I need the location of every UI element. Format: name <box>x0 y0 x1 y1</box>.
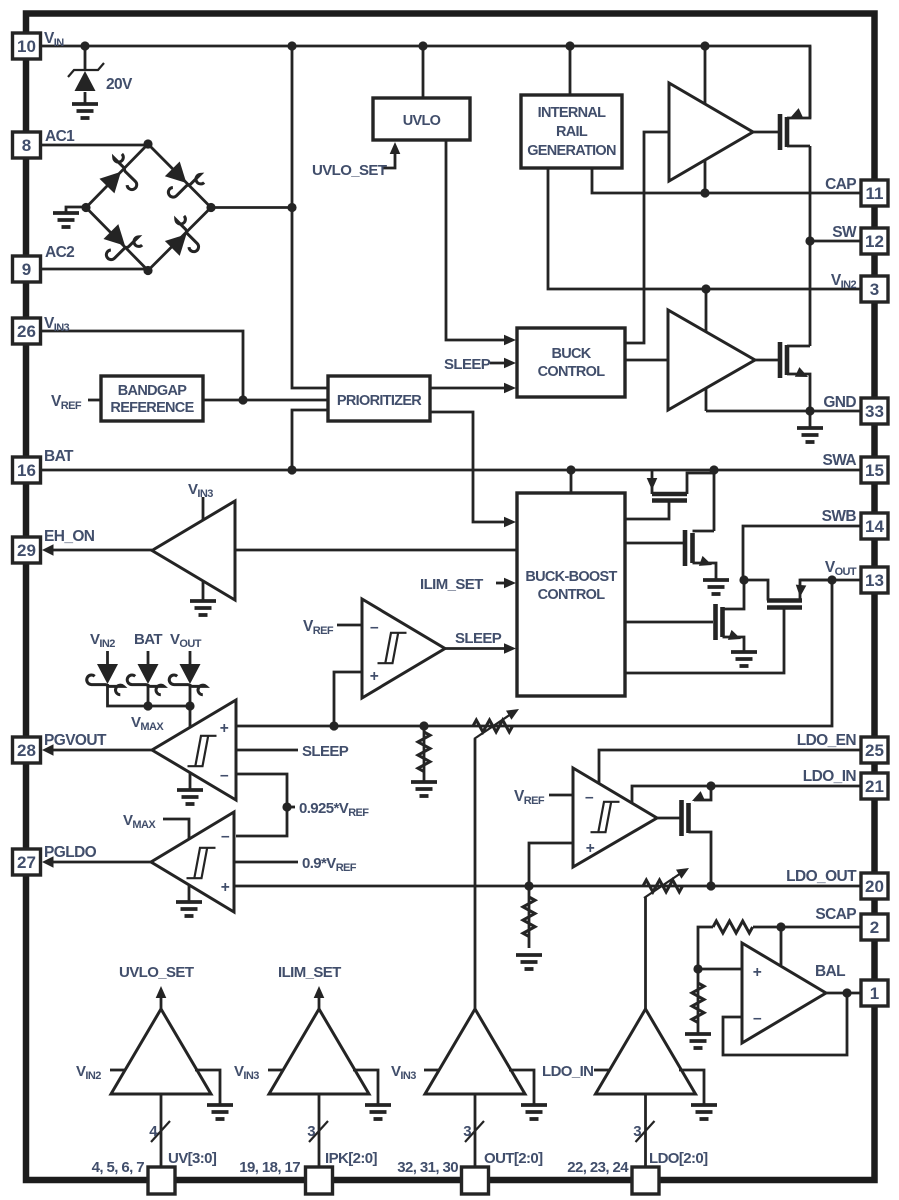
pin 8 AC1 <box>13 132 41 158</box>
wire 0.925*VREF vertical <box>236 774 287 836</box>
svg-text:EH_ON: EH_ON <box>44 528 95 545</box>
wire 0.925*VREF label stub <box>287 806 295 809</box>
wire UVLO top stub <box>422 46 425 98</box>
wire prioritizer to buck control <box>430 387 510 390</box>
resistor SCAP feedback <box>713 921 753 933</box>
wire EH_ON amp ground stub <box>202 578 205 601</box>
wire SCAP feedback left segment <box>698 927 713 969</box>
svg-text:PGLDO: PGLDO <box>44 844 97 861</box>
wire LDO comparator output <box>657 817 680 820</box>
pin 15 SWA <box>861 457 888 483</box>
arrow into pin 27 <box>42 856 54 868</box>
wire SW node vertical <box>809 146 812 346</box>
svg-text:ILIM_SET: ILIM_SET <box>420 576 483 593</box>
svg-text:+: + <box>221 879 230 896</box>
wire EH_ON amp output to pin 29 <box>46 549 152 552</box>
wire fet A left arm to SWA <box>651 470 654 494</box>
svg-text:BUCK-BOOST: BUCK-BOOST <box>525 569 617 585</box>
transistor sw nmos <box>780 342 787 378</box>
resistor variable VOUT sense <box>473 704 522 739</box>
wire SCAP line to pin 2 <box>753 926 861 929</box>
wire prioritizer to buck-boost control <box>430 412 510 522</box>
svg-text:UV[3:0]: UV[3:0] <box>168 1150 217 1167</box>
wire buck-boost gate D <box>625 609 784 673</box>
wire SW stub to pin 12 <box>810 240 861 243</box>
block PRIORITIZER <box>328 376 430 421</box>
svg-text:VIN2: VIN2 <box>76 1063 101 1082</box>
svg-text:LDO[2:0]: LDO[2:0] <box>649 1150 708 1167</box>
svg-text:VIN2: VIN2 <box>831 272 857 291</box>
wire VOUT sense line to PGVOUT plus <box>236 580 832 726</box>
dac ILIM_SET <box>268 986 391 1119</box>
junction dot VOUT pin node <box>827 575 836 584</box>
wire VREF stub to bandgap <box>88 399 101 402</box>
svg-text:9: 9 <box>22 260 31 279</box>
junction dot VMAX vout <box>185 701 194 710</box>
junction dot sense sleep <box>329 721 338 730</box>
junction dot VIN zener <box>80 41 89 50</box>
svg-text:20: 20 <box>865 877 884 896</box>
wire bridge ground stub <box>66 207 86 213</box>
wire LDO feedback resistor stubs <box>528 886 531 948</box>
transistor fet C arrow <box>728 630 743 644</box>
wire main vertical VIN to prioritizer <box>292 46 328 388</box>
diode VMAX BAT <box>127 664 164 695</box>
wire BAL feedback loop <box>723 993 847 1055</box>
svg-text:–: – <box>585 789 594 806</box>
op-amp cap driver <box>669 83 753 181</box>
pin 29 EH_ON <box>13 537 41 563</box>
svg-text:+: + <box>370 668 379 685</box>
comparator LDO <box>573 768 657 867</box>
bus stem OUT with slash <box>465 1094 484 1167</box>
junction dot VIN2 driver <box>701 284 710 293</box>
resistor variable LDO <box>643 863 692 898</box>
svg-text:UVLO: UVLO <box>403 113 441 129</box>
svg-text:11: 11 <box>866 184 884 203</box>
wire SWA node to fet B drain <box>713 470 716 531</box>
wire ILIM_SET stub to buck-boost <box>496 582 510 585</box>
pin 11 CAP <box>861 180 888 206</box>
pin 13 VOUT <box>861 567 888 593</box>
dac LDO <box>594 1009 717 1119</box>
transistor cap pmos <box>780 114 787 150</box>
svg-text:LDO_IN: LDO_IN <box>803 768 857 785</box>
comparator PGLDO <box>151 812 234 912</box>
wire bal opamp plus input <box>698 968 742 971</box>
transistor sw nmos arrow <box>795 367 810 382</box>
wire BAL output to pin 1 <box>826 992 861 995</box>
junction dot bridge bottom <box>143 266 152 275</box>
pin 26 VIN3 <box>13 318 41 344</box>
comparator PGVOUT <box>152 700 236 800</box>
svg-text:+: + <box>586 840 595 857</box>
svg-text:BAT: BAT <box>44 448 74 465</box>
svg-text:CONTROL: CONTROL <box>538 587 606 603</box>
svg-text:+: + <box>220 720 229 737</box>
wire LDO comparator plus to LDO_OUT <box>529 843 573 886</box>
transistor fet A <box>652 494 687 501</box>
svg-text:VMAX: VMAX <box>131 714 164 733</box>
zener diode 20V <box>68 63 104 104</box>
arrow into pin 29 <box>42 544 54 556</box>
svg-text:20V: 20V <box>106 76 133 93</box>
wire bal divider resistor stubs <box>697 969 700 1034</box>
bus stem IPK with slash <box>309 1094 328 1167</box>
svg-text:SW: SW <box>832 224 857 241</box>
block BANDGAP REFERENCE <box>101 376 203 421</box>
wire PGLDO ground stub <box>188 884 191 902</box>
pin 25 LDO_EN <box>861 737 888 763</box>
svg-text:ILIM_SET: ILIM_SET <box>278 964 341 981</box>
transistor fet B arrow <box>699 556 714 570</box>
transistor fet C <box>716 604 723 640</box>
svg-text:21: 21 <box>865 777 884 796</box>
svg-text:VIN3: VIN3 <box>234 1063 259 1082</box>
junction dot bridge output <box>287 203 296 212</box>
junction dot BAT prioritizer <box>287 465 296 474</box>
transistor LDO pmos arrow <box>690 791 705 806</box>
junction dot BAT buckboost <box>566 465 575 474</box>
svg-text:3: 3 <box>307 1123 315 1140</box>
comparator SLEEP <box>362 599 445 698</box>
svg-text:19, 18, 17: 19, 18, 17 <box>239 1159 300 1176</box>
svg-text:SLEEP: SLEEP <box>455 630 502 647</box>
wire sleep comparator plus input <box>334 672 362 726</box>
transistor fet A arrow <box>647 478 658 490</box>
resistor VOUT sense to ground <box>411 732 437 796</box>
svg-text:1: 1 <box>870 984 879 1003</box>
svg-text:–: – <box>220 767 229 784</box>
svg-text:+: + <box>753 964 762 981</box>
svg-text:2: 2 <box>870 918 879 937</box>
svg-text:3: 3 <box>870 280 879 299</box>
transistor fet B <box>685 530 693 566</box>
svg-text:32, 31, 30: 32, 31, 30 <box>397 1159 458 1176</box>
svg-text:LDO_OUT: LDO_OUT <box>786 868 857 885</box>
wire fet C source arm to ground <box>723 637 745 652</box>
pin box OUT bus <box>462 1167 489 1194</box>
svg-text:OUT[2:0]: OUT[2:0] <box>484 1150 543 1167</box>
junction dot SWB VOUT node <box>739 575 748 584</box>
svg-text:BAT: BAT <box>134 631 162 648</box>
junction dot 0.925 vref <box>282 802 291 811</box>
svg-text:IPK[2:0]: IPK[2:0] <box>325 1150 377 1167</box>
svg-text:29: 29 <box>17 541 36 560</box>
transistor fet D <box>767 601 802 608</box>
arrow into pin 28 <box>42 744 54 756</box>
pin 2 SCAP <box>861 914 888 940</box>
svg-text:0.9*VREF: 0.9*VREF <box>302 855 357 874</box>
wire buck control to cap-driver amp input <box>625 132 669 343</box>
pin 21 LDO_IN <box>861 773 888 799</box>
wire buck-boost gate A <box>625 502 669 519</box>
diode bridge upper-left <box>99 152 145 194</box>
junction dot bandgap vin3 <box>238 395 247 404</box>
wire SLEEP stub to buck control <box>490 362 510 365</box>
svg-text:28: 28 <box>17 741 36 760</box>
wire buck-boost gate C <box>625 621 713 624</box>
svg-text:VIN: VIN <box>44 30 64 49</box>
svg-text:RAIL: RAIL <box>556 124 588 140</box>
svg-text:SLEEP: SLEEP <box>444 356 491 373</box>
wire LDO pmos drain to LDO_OUT <box>689 832 712 886</box>
wire fet B drain arm <box>693 530 715 533</box>
svg-text:27: 27 <box>17 853 36 872</box>
svg-text:BUCK: BUCK <box>551 346 591 362</box>
svg-text:SWA: SWA <box>822 452 856 469</box>
svg-text:14: 14 <box>865 517 884 536</box>
svg-text:PGVOUT: PGVOUT <box>44 732 107 749</box>
wire sense resistor stub <box>423 726 426 782</box>
pin 33 GND <box>861 398 888 424</box>
ground below zener <box>72 104 98 118</box>
wire sw nmos source arm <box>787 374 810 411</box>
junction dot bridge top <box>143 139 152 148</box>
svg-text:3: 3 <box>463 1123 471 1140</box>
pin 28 PGVOUT <box>13 737 41 763</box>
ground at bridge <box>53 213 79 227</box>
svg-text:26: 26 <box>17 322 36 341</box>
svg-text:INTERNAL: INTERNAL <box>538 105 607 121</box>
junction dot VIN main vertical <box>287 41 296 50</box>
svg-text:–: – <box>221 828 230 845</box>
ground below PGLDO comparator <box>176 902 202 916</box>
wire VMAX bus <box>108 684 191 706</box>
diode VMAX VIN2 <box>87 664 124 695</box>
wire cap-driver supply vertical <box>704 46 707 193</box>
wire PGLDO output to pin 27 <box>46 861 151 864</box>
pin 3 VIN2 <box>861 276 888 302</box>
junction dot cap line <box>700 188 709 197</box>
pin 20 LDO_OUT <box>861 873 888 899</box>
junction dot SWA fets <box>709 465 718 474</box>
wire VMAX to PGVOUT supply and ground <box>189 684 192 790</box>
diode bridge lower-left <box>103 224 144 269</box>
wire bridge output to main vertical <box>211 206 292 209</box>
svg-text:AC1: AC1 <box>45 128 75 145</box>
wire fet D left arm <box>744 580 768 601</box>
svg-text:15: 15 <box>865 461 884 480</box>
svg-text:SCAP: SCAP <box>815 906 856 923</box>
junction dot sense resistor <box>419 721 428 730</box>
resistor BAL divider to ground <box>685 983 711 1048</box>
wire VIN3 from pin 26 <box>41 331 244 400</box>
svg-text:BAL: BAL <box>815 963 845 980</box>
svg-text:VIN3: VIN3 <box>188 481 213 500</box>
junction dot GND nmos <box>805 406 814 415</box>
resistor LDO feedback to ground <box>516 897 542 969</box>
wire cap pmos drain arm <box>787 145 810 148</box>
pin box UV bus <box>148 1167 175 1194</box>
bus stem LDO with slash <box>636 1094 655 1167</box>
wire bandgap to prioritizer <box>203 399 328 402</box>
dac UVLO_SET <box>110 986 233 1119</box>
wire IRG to CAP line <box>592 168 861 193</box>
wire UVLO output to buck control <box>446 140 510 340</box>
diode bridge lower-right <box>165 214 208 256</box>
junction dot SCAP <box>776 922 785 931</box>
wire 0.9*VREF input of PGLDO <box>234 861 298 864</box>
arrow SLEEP to buck control <box>504 358 516 369</box>
svg-text:REFERENCE: REFERENCE <box>110 400 194 416</box>
wire fet C drain arm to SWB node <box>723 580 745 609</box>
junction dot bridge right <box>206 203 215 212</box>
op-amp BAL <box>742 943 826 1043</box>
wire VREF stub to sleep comparator <box>337 624 362 627</box>
svg-text:VREF: VREF <box>514 788 545 807</box>
svg-text:33: 33 <box>865 402 884 421</box>
op-amp sw driver <box>668 310 755 410</box>
wire prioritizer to BAT vertical <box>292 410 328 470</box>
pin 1 BAL <box>861 980 888 1006</box>
diode VMAX VOUT <box>169 664 206 695</box>
junction dot VMAX bat <box>143 701 152 710</box>
svg-text:VOUT: VOUT <box>825 559 857 578</box>
wire cap pmos source arm <box>787 46 810 118</box>
junction dot LDO plus <box>524 881 533 890</box>
pin 12 SW <box>861 228 888 254</box>
svg-text:VMAX: VMAX <box>123 812 156 831</box>
svg-text:AC2: AC2 <box>45 244 74 261</box>
svg-text:GND: GND <box>823 394 856 411</box>
wire fet B source arm to ground <box>693 563 717 580</box>
wire VOUT line to pin 13 <box>800 579 861 582</box>
ground below EH_ON amp <box>190 601 216 615</box>
ground at fet C <box>731 652 757 666</box>
op-amp EH_ON buffer <box>152 501 235 600</box>
svg-text:SLEEP: SLEEP <box>302 743 349 760</box>
wire cap pmos gate wire <box>753 131 780 134</box>
wire EH_ON amp VIN3 supply stub <box>202 497 205 522</box>
wire sw nmos gate wire <box>755 359 780 362</box>
wire LDO_OUT line PGLDO plus to pin 20 <box>234 885 861 888</box>
wire IRG to VIN2 line <box>548 168 861 289</box>
wire PGVOUT output to pin 28 <box>46 749 152 752</box>
transistor LDO pmos <box>682 800 689 836</box>
wire BAT-SWA line pin16 to pin15 <box>41 469 862 472</box>
block INTERNAL RAIL GENERATION <box>521 95 622 168</box>
wire LDO_IN line to pin 21 <box>632 786 861 803</box>
arrow UVLO to buck control <box>504 335 516 346</box>
svg-text:LDO_EN: LDO_EN <box>797 732 857 749</box>
svg-text:VREF: VREF <box>303 618 334 637</box>
junction dot VIN cap driver <box>700 41 709 50</box>
block BUCK-BOOST CONTROL <box>517 493 625 696</box>
svg-text:CONTROL: CONTROL <box>538 364 606 380</box>
wire OUT dac vertical to sense wiper <box>474 739 477 1009</box>
transistor cap pmos arrow <box>788 108 803 123</box>
svg-text:VOUT: VOUT <box>170 631 202 650</box>
svg-text:SWB: SWB <box>822 508 857 525</box>
svg-text:VIN2: VIN2 <box>90 631 115 650</box>
wire EH_ON amp input from buck-boost <box>235 549 517 552</box>
pin 14 SWB <box>861 513 888 539</box>
wire VIN rail from pin 10 <box>41 46 811 118</box>
svg-text:4, 5, 6, 7: 4, 5, 6, 7 <box>92 1159 145 1176</box>
wire bridge diamond <box>86 144 211 271</box>
arrow sleep comp to buck-boost <box>504 643 516 654</box>
wire sw nmos ground stub <box>809 411 812 428</box>
wire VMAX stub to PGLDO <box>163 819 189 841</box>
transistor fet D arrow <box>795 585 807 598</box>
svg-text:UVLO_SET: UVLO_SET <box>119 964 194 981</box>
wire LDO dac vertical to ldo wiper <box>644 897 647 1009</box>
arrow prioritizer to buck-boost <box>504 517 516 528</box>
svg-text:VIN3: VIN3 <box>44 315 70 334</box>
wire VMAX diode stems <box>106 651 109 667</box>
wire buck control to sw-driver amp input <box>625 359 668 362</box>
wire AC2 from pin 9 <box>41 268 149 271</box>
ground at fet B <box>703 580 729 594</box>
wire UVLO_SET stub <box>383 146 395 168</box>
pin 9 AC2 <box>13 256 41 282</box>
arrow prioritizer to buck control <box>504 383 516 394</box>
svg-text:0.925*VREF: 0.925*VREF <box>299 800 369 819</box>
wire sw nmos drain arm <box>787 345 810 348</box>
svg-text:VREF: VREF <box>51 393 82 412</box>
svg-text:BANDGAP: BANDGAP <box>118 383 187 399</box>
wire AC1 from pin 8 <box>41 144 149 147</box>
wire VREF stub to LDO comparator <box>549 794 573 797</box>
bus stem UV with slash <box>151 1094 170 1167</box>
svg-text:VIN3: VIN3 <box>391 1063 416 1082</box>
svg-text:UVLO_SET: UVLO_SET <box>312 162 387 179</box>
wire sw-driver supply vertical <box>705 289 708 411</box>
svg-text:–: – <box>753 1010 762 1027</box>
block UVLO <box>373 98 470 140</box>
svg-text:8: 8 <box>22 136 31 155</box>
svg-text:PRIORITIZER: PRIORITIZER <box>337 393 422 409</box>
block BUCK CONTROL <box>517 328 625 397</box>
wire SCAP stub into bal opamp <box>780 927 783 965</box>
junction dot VIN UVLO <box>418 41 427 50</box>
pin box IPK bus <box>306 1167 333 1194</box>
junction dot SW node <box>805 236 814 245</box>
pin 27 PGLDO <box>13 849 41 875</box>
svg-text:16: 16 <box>17 461 36 480</box>
wire buck-boost top stub <box>570 470 573 493</box>
wire fet A right arm to node <box>687 470 714 494</box>
junction dot LDO_IN pmos <box>706 781 715 790</box>
junction dot BAL output <box>842 988 851 997</box>
pin 10 VIN <box>13 33 41 59</box>
svg-text:25: 25 <box>865 741 884 760</box>
dac OUT <box>424 1009 547 1119</box>
wire sleep comparator output to buck-boost <box>445 647 510 650</box>
junction dot BAL plus <box>693 964 702 973</box>
svg-text:13: 13 <box>865 571 884 590</box>
junction dot bridge left <box>81 203 90 212</box>
svg-text:LDO_IN: LDO_IN <box>542 1063 593 1080</box>
svg-text:CAP: CAP <box>825 176 856 193</box>
wire fet D right arm <box>800 580 832 601</box>
arrow ILIM_SET to buck-boost <box>504 578 516 589</box>
wire SWB from pin 14 <box>743 526 861 580</box>
junction dot VIN IRG <box>565 41 574 50</box>
wire buck-boost gate B <box>625 542 685 545</box>
svg-text:3: 3 <box>633 1123 641 1140</box>
wire SLEEP input of PGVOUT <box>236 749 298 752</box>
svg-text:GENERATION: GENERATION <box>527 143 616 159</box>
svg-text:4: 4 <box>149 1123 158 1140</box>
wire GND line to pin 33 <box>706 410 861 413</box>
svg-text:–: – <box>370 619 379 636</box>
pin box LDO bus <box>632 1167 659 1194</box>
svg-text:10: 10 <box>17 37 36 56</box>
wire zener stem <box>84 46 87 70</box>
svg-text:22, 23, 24: 22, 23, 24 <box>567 1159 629 1176</box>
